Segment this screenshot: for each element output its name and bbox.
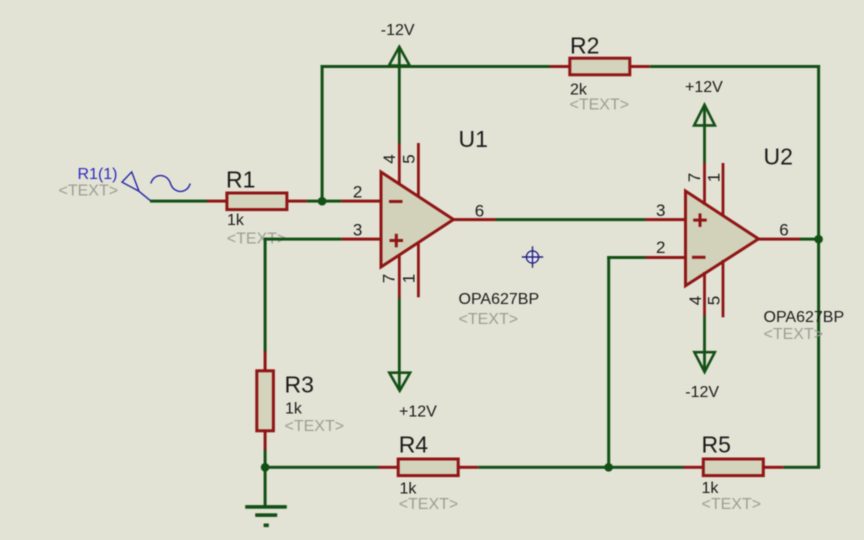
svg-text:6: 6 [475,202,484,221]
wire: node up to top rail [321,65,324,201]
power +12V arrow above U2 [694,105,715,126]
node junction dot at R1/U1 [318,197,327,206]
svg-text:7: 7 [685,173,704,182]
svg-text:1: 1 [399,274,418,283]
svg-text:1: 1 [705,173,724,182]
U1 pin 7 stub [398,255,401,298]
wire: U2 out to right rail [800,238,820,241]
U2 pin 7 stub [703,163,706,205]
resistor R1 body [227,193,287,210]
U2 pin 5 stub [722,260,725,317]
U2 pin 4 stub [703,272,706,316]
ground symbol [245,505,287,527]
wire: R2 to right rail [650,65,820,68]
svg-text:R3: R3 [285,371,314,397]
node junction dot at R3/ground/R4 [261,463,270,472]
svg-text:7: 7 [379,274,398,283]
svg-text:5: 5 [400,154,419,163]
resistor R3 lead bottom [264,431,267,451]
svg-text:4: 4 [380,154,399,163]
U2 pin 2 stub [646,256,686,259]
U1 pin 4 stub [398,143,401,184]
svg-text:R1: R1 [226,166,255,192]
svg-text:1k: 1k [227,212,245,229]
resistor R2 lead right [630,65,650,68]
resistor R5 lead left [684,466,704,469]
U1 pin 5 stub [417,143,420,196]
U1 minus symbol [389,200,403,203]
resistor R1 lead right [287,200,307,203]
svg-text:R2: R2 [570,32,599,58]
svg-text:3: 3 [656,201,665,220]
svg-text:4: 4 [686,296,705,305]
svg-text:+12V: +12V [685,79,723,96]
wire: R4 to R5 (through node) [478,466,683,469]
power +12V arrow below U1 (down) [389,373,410,391]
svg-text:1k: 1k [400,480,418,497]
generator sine wave [151,176,190,192]
wire: R5 to right rail [783,466,820,469]
svg-text:<TEXT>: <TEXT> [59,183,119,200]
resistor R4 body [398,459,458,476]
op-amp U2 triangle [686,191,759,286]
wire: U1 out to U2 pin3 [496,218,646,221]
wire: corner to U2 pin2 stub [607,256,645,259]
svg-text:1k: 1k [285,400,303,417]
wire: R3 top node to U1 pin3 [264,238,342,241]
U2 pin 3 stub [646,218,686,221]
resistor R1 lead left [207,200,227,203]
power -12V arrow above U1 [389,47,410,66]
svg-text:2: 2 [353,183,362,202]
origin marker crosshair [522,246,543,267]
resistor R5 lead right [763,466,783,469]
svg-text:<TEXT>: <TEXT> [459,311,519,328]
svg-text:OPA627BP: OPA627BP [459,291,540,308]
U2 minus symbol [692,256,706,259]
svg-text:U2: U2 [764,144,793,170]
svg-text:OPA627BP: OPA627BP [764,309,845,326]
resistor R4 lead left [378,466,398,469]
svg-text:3: 3 [353,221,362,240]
svg-text:5: 5 [704,296,723,305]
wire: right rail vertical [817,65,820,469]
wire: R3 bottom to ground rail [264,450,267,506]
svg-text:-12V: -12V [685,384,719,401]
svg-text:U1: U1 [459,126,488,152]
U1 output pin 6 stub [452,218,496,221]
svg-text:+12V: +12V [399,403,437,420]
resistor R3 lead top [264,351,267,371]
op-amp U1 triangle [381,172,454,267]
wire: top feedback rail left segment [321,65,550,68]
U2 output pin 6 stub [757,238,800,241]
svg-text:<TEXT>: <TEXT> [570,97,630,114]
resistor R2 body [570,58,630,75]
svg-text:<TEXT>: <TEXT> [702,496,762,513]
svg-text:<TEXT>: <TEXT> [764,326,824,343]
svg-text:-12V: -12V [381,22,415,39]
wire: input to R1 [150,200,208,203]
wire: R1 to U1 pin2 (through node) [307,200,342,203]
resistor R4 lead right [458,466,478,469]
resistor R3 body [257,371,274,431]
U2 plus symbol [693,213,707,227]
generator probe (blue triangle with tail) [122,172,150,201]
wire: U1 pin3 node down to R3 [264,238,267,353]
wire: +12V arrow down to U2 pin7 [703,106,706,164]
svg-text:R4: R4 [399,431,429,457]
svg-text:1k: 1k [702,480,720,497]
U1 pin 1 stub [417,242,420,297]
node junction dot at U2 feedback [604,463,613,472]
U1 pin 3 stub [341,238,381,241]
U1 plus symbol [390,234,404,248]
svg-text:<TEXT>: <TEXT> [285,418,345,435]
U1 pin 2 stub [341,200,381,203]
wire: ground node to R4 [264,466,379,469]
wire: feedback node up to U2 pin2 [607,256,610,467]
U2 pin 1 stub [722,163,725,216]
wire: U1 pin7 down to +12V arrow [398,298,401,390]
svg-text:R1(1): R1(1) [78,166,118,183]
svg-text:<TEXT>: <TEXT> [399,496,459,513]
wire: U2 pin4 down to -12V arrow [703,316,706,370]
svg-text:2: 2 [656,238,665,257]
node junction dot at U2 output [814,235,823,244]
resistor R2 lead left [550,65,570,68]
power -12V arrow below U2 (down) [694,352,714,372]
svg-text:6: 6 [779,220,788,239]
svg-text:R5: R5 [702,431,731,457]
wire: -12V arrow down to U1 pin4 [398,48,401,144]
resistor R5 body [703,459,763,476]
